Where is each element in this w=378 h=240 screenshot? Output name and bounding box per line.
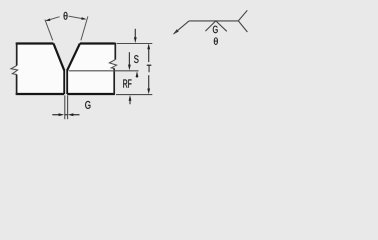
- dimension T lower arrow: [148, 75, 150, 90]
- root face extension line: [69, 70, 139, 72]
- left plate fill: [17, 44, 64, 95]
- weld symbol G label: [213, 26, 218, 33]
- dimension RF label: [123, 80, 131, 88]
- theta right extension line: [81, 16, 88, 40]
- weld symbol arrowhead: [173, 29, 179, 34]
- dimension RF upper arrow: [136, 75, 138, 78]
- weld symbol tail: [238, 10, 247, 32]
- dimension G label: [85, 101, 90, 109]
- bottom surface extension line: [116, 94, 152, 96]
- weld symbol reference line: [189, 20, 238, 22]
- dimension RF lower arrow: [129, 100, 131, 105]
- root opening right extension line: [67, 95, 69, 119]
- left plate left edge lower: [16, 75, 18, 95]
- left plate left edge upper: [16, 43, 18, 66]
- dimension T label: [147, 65, 151, 72]
- dimension T upper arrow: [148, 47, 150, 63]
- left plate break symbol: [11, 66, 18, 75]
- theta right arrowhead: [81, 17, 86, 20]
- right plate bottom edge: [67, 93, 115, 95]
- right plate fill: [67, 44, 116, 95]
- dimension S upper arrow: [134, 29, 136, 39]
- theta label: [64, 12, 68, 20]
- right plate right edge upper: [114, 43, 116, 60]
- dimension G middle segment: [65, 114, 68, 116]
- right plate root face: [66, 70, 68, 95]
- dimension G left arrow: [52, 114, 60, 116]
- theta left arrowhead: [45, 18, 50, 21]
- right plate top edge: [80, 42, 115, 44]
- left plate bevel face: [54, 44, 65, 71]
- theta left extension line: [45, 20, 53, 41]
- top surface extension line: [117, 43, 153, 45]
- dimension G right arrow: [72, 114, 80, 116]
- right plate bevel face: [67, 44, 80, 71]
- weld symbol V-groove symbol: [205, 21, 226, 31]
- theta left leader: [46, 17, 59, 21]
- dimension S lower arrow: [128, 52, 130, 66]
- right plate break symbol: [109, 60, 116, 69]
- root opening left extension line: [64, 95, 66, 119]
- right plate right edge lower: [113, 68, 115, 95]
- left plate bottom edge: [16, 93, 64, 95]
- left plate top edge: [16, 42, 54, 44]
- weld symbol theta label: [214, 38, 218, 45]
- theta right leader: [69, 16, 86, 19]
- left plate root face: [63, 70, 65, 95]
- dimension S label: [134, 55, 138, 63]
- weld symbol leader line: [174, 21, 189, 34]
